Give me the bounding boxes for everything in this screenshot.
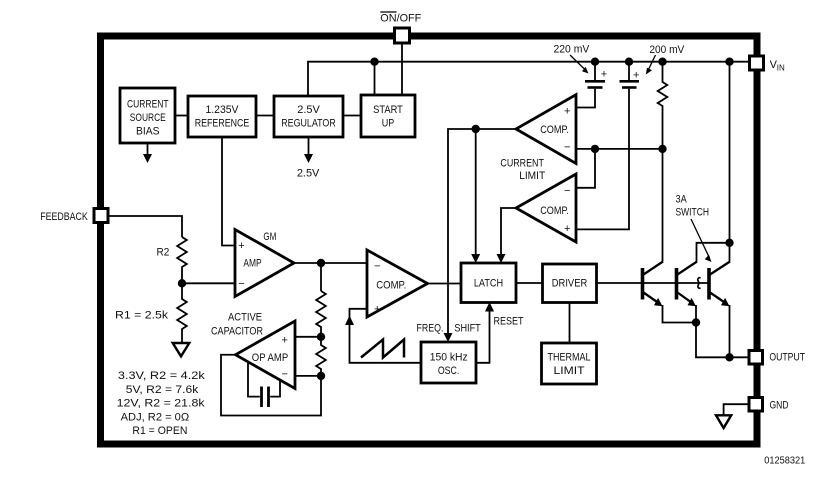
wire REG to START UP <box>343 115 361 117</box>
ground R1 <box>173 343 190 356</box>
box U1 CURRENT SOURCE BIAS <box>120 88 175 143</box>
svg-text:ON/OFF: ON/OFF <box>380 12 421 24</box>
svg-text:5V, R2 = 7.6k: 5V, R2 = 7.6k <box>126 384 199 396</box>
svg-text:+: + <box>601 68 607 80</box>
wire VIN top rail <box>308 62 750 96</box>
svg-text:SWITCH: SWITCH <box>676 207 710 219</box>
resistor compensation R lower <box>316 337 326 376</box>
resistor R1 <box>177 283 187 343</box>
arrow into latch right <box>497 254 506 263</box>
svg-text:2.5V: 2.5V <box>297 104 320 116</box>
comparator PWM COMP <box>367 250 428 317</box>
label 3A SWITCH <box>676 194 710 219</box>
node GM output junction <box>318 260 325 267</box>
svg-text:−: − <box>238 278 244 290</box>
wire lower comp output to latch <box>501 208 516 258</box>
op-amp GM AMP <box>235 230 294 297</box>
squiggle base wire <box>698 278 701 289</box>
svg-text:LIMIT: LIMIT <box>554 365 585 377</box>
svg-text:SOURCE: SOURCE <box>130 112 166 124</box>
svg-text:COMP.: COMP. <box>540 205 569 217</box>
op-amp OP AMP <box>236 321 296 389</box>
pin VIN <box>750 56 764 70</box>
box U7 DRIVER <box>543 264 597 303</box>
wire op-amp output loop <box>221 355 321 416</box>
svg-text:R2: R2 <box>157 247 170 259</box>
svg-text:SHIFT: SHIFT <box>454 323 481 335</box>
wire driver to thermal limit <box>569 303 571 344</box>
svg-text:R1 = OPEN: R1 = OPEN <box>132 425 187 437</box>
label GM AMP <box>238 231 276 290</box>
label THERMAL LIMIT <box>548 351 591 377</box>
box U3 2.5V REGULATOR <box>274 96 343 137</box>
label CURRENT LIMIT <box>500 158 545 182</box>
wire base drive <box>597 282 708 284</box>
sawtooth waveform <box>361 340 404 358</box>
arrow 3A switch annotation <box>691 219 712 262</box>
wire GND pin <box>724 404 749 415</box>
svg-text:+: + <box>564 105 570 117</box>
svg-text:200 mV: 200 mV <box>649 44 684 56</box>
svg-text:CAPACITOR: CAPACITOR <box>211 326 263 338</box>
wire compensation chain top <box>320 263 322 291</box>
node rail 200mV <box>626 58 633 65</box>
box U6 LATCH <box>461 263 516 303</box>
wire branch to latch <box>475 129 477 258</box>
arrow into latch left <box>471 254 480 263</box>
resistor R2 <box>177 237 187 283</box>
wire current limit sense <box>576 148 663 150</box>
transistor Q1 <box>643 262 664 307</box>
wire Q2 emitter to output <box>696 305 749 357</box>
svg-text:COMP.: COMP. <box>540 124 569 136</box>
label 2.5V REGULATOR <box>281 104 336 130</box>
svg-text:START: START <box>373 104 403 116</box>
box U2 1.235V REFERENCE <box>188 96 256 137</box>
svg-text:OUTPUT: OUTPUT <box>769 351 805 363</box>
svg-text:GND: GND <box>770 399 789 411</box>
pin OUTPUT <box>749 351 763 365</box>
wire CSB to REF <box>175 115 188 117</box>
comparator current limit lower <box>516 174 576 242</box>
svg-text:REGULATOR: REGULATOR <box>281 118 336 130</box>
svg-text:−: − <box>374 260 380 272</box>
arrow comp + input <box>345 316 354 326</box>
label PWM COMP <box>374 260 406 315</box>
svg-text:−: − <box>564 185 570 197</box>
wire sense to T1 collector <box>662 149 664 262</box>
node rail-startup junction <box>371 58 378 65</box>
wire Q3 collector to rail <box>729 62 731 262</box>
node output junction <box>726 354 733 361</box>
svg-text:ACTIVE: ACTIVE <box>228 311 262 323</box>
wire GM output to comparator <box>294 262 367 264</box>
battery 220mV offset <box>576 62 605 108</box>
label ON/OFF <box>380 12 421 24</box>
wire rail to START UP <box>374 62 376 95</box>
resistor current sense <box>658 62 668 149</box>
arrow REG 2.5V output <box>304 137 313 163</box>
svg-text:CURRENT: CURRENT <box>500 158 544 170</box>
label resistor values <box>117 370 206 437</box>
svg-text:OP AMP: OP AMP <box>252 352 288 364</box>
svg-text:GM: GM <box>263 231 276 243</box>
node Q2-Q3 collectors <box>726 240 733 247</box>
wire comp + input from oscillator <box>350 309 422 363</box>
node sense resistor bottom <box>659 146 666 153</box>
svg-text:IN: IN <box>777 64 785 73</box>
wire op-amp - input <box>295 375 321 377</box>
pin GND <box>749 398 763 412</box>
pin ON/OFF <box>395 28 410 43</box>
wire op-amp + input <box>295 336 321 338</box>
resistor compensation R upper <box>316 291 326 337</box>
svg-text:REFERENCE: REFERENCE <box>195 118 250 130</box>
node rail switch <box>726 58 733 65</box>
svg-text:R1 = 2.5k: R1 = 2.5k <box>115 309 169 321</box>
svg-text:ADJ, R2 = 0Ω: ADJ, R2 = 0Ω <box>121 411 190 423</box>
svg-text:CURRENT: CURRENT <box>127 98 169 110</box>
svg-text:RESET: RESET <box>494 315 524 327</box>
wire oscillator reset to latch <box>476 303 490 363</box>
svg-text:LATCH: LATCH <box>474 278 503 290</box>
transistor Q3 3A SWITCH <box>709 262 730 307</box>
IC boundary <box>101 36 758 444</box>
node feedback divider junction <box>179 280 186 287</box>
capacitor active feedback <box>248 363 280 408</box>
svg-text:AMP: AMP <box>243 258 261 270</box>
label CURRENT SOURCE BIAS <box>127 98 169 137</box>
svg-text:+: + <box>564 223 570 235</box>
arrow 220mV annotation <box>570 55 589 74</box>
svg-text:−: − <box>564 141 570 153</box>
comparator current limit upper <box>516 95 576 164</box>
box U4 START UP <box>361 95 415 137</box>
wire comp output to latch <box>428 283 462 285</box>
svg-text:LIMIT: LIMIT <box>519 170 545 182</box>
label 1.235V REFERENCE <box>195 104 250 130</box>
label 150 kHz OSC <box>430 352 468 377</box>
svg-text:+: + <box>238 240 244 252</box>
svg-text:BIAS: BIAS <box>136 125 160 137</box>
wire ON/OFF to START UP <box>401 43 403 95</box>
label VIN <box>770 59 785 73</box>
wire Q2 collector <box>697 243 730 262</box>
svg-text:01258321: 01258321 <box>764 455 805 466</box>
svg-text:3.3V, R2 = 4.2k: 3.3V, R2 = 4.2k <box>118 370 205 382</box>
svg-text:THERMAL: THERMAL <box>548 351 591 363</box>
label ACTIVE CAPACITOR <box>211 311 263 337</box>
node op-amp + tap <box>318 334 325 341</box>
svg-text:+: + <box>282 335 288 347</box>
wire latch to driver <box>516 282 543 284</box>
node sense branch <box>592 146 599 153</box>
transistor Q2 <box>677 262 698 307</box>
svg-text:COMP.: COMP. <box>376 279 406 291</box>
node rail 220mV <box>592 58 599 65</box>
svg-text:FREQ.: FREQ. <box>417 323 444 335</box>
pin FEEDBACK <box>94 209 108 223</box>
svg-text:12V, R2 = 21.8k: 12V, R2 = 21.8k <box>117 398 206 410</box>
box U8 THERMAL LIMIT <box>542 343 597 384</box>
node op-amp - tap <box>318 373 325 380</box>
arrow CSB bias output <box>143 143 152 163</box>
node rail sense resistor <box>659 58 666 65</box>
svg-text:−: − <box>282 369 288 381</box>
wire divider to GM amp - input <box>182 282 235 284</box>
wire Q3 emitter <box>729 305 731 357</box>
svg-text:3A: 3A <box>676 194 688 206</box>
battery 200mV offset <box>576 62 639 230</box>
box U5 150 kHz OSC <box>421 342 476 383</box>
wire REF to REG <box>256 115 274 117</box>
svg-text:220 mV: 220 mV <box>554 43 590 55</box>
svg-text:2.5V: 2.5V <box>297 167 320 179</box>
label START UP <box>373 104 403 130</box>
svg-text:UP: UP <box>382 118 395 130</box>
svg-text:1.235V: 1.235V <box>206 104 240 116</box>
wire sense to lower comp - input <box>576 149 595 188</box>
label 220 mV <box>554 43 608 80</box>
label 200 mV <box>633 44 685 81</box>
ground GND pin <box>716 415 731 428</box>
wire Q1 emitter <box>663 305 697 323</box>
svg-text:OSC.: OSC. <box>438 365 460 377</box>
svg-text:DRIVER: DRIVER <box>552 278 588 290</box>
wire REF to GM amp + input <box>222 137 235 246</box>
wire upper comp output to latch and osc <box>448 129 516 337</box>
svg-text:+: + <box>633 69 639 81</box>
label FREQ SHIFT <box>417 323 481 335</box>
label upper comparator <box>540 105 570 153</box>
svg-text:+: + <box>374 303 380 315</box>
arrow reset into latch <box>485 302 494 312</box>
wire FEEDBACK to R2 <box>108 216 182 237</box>
node upper comp output branch <box>472 126 479 133</box>
arrow freq shift into osc <box>444 333 453 342</box>
arrow 200mV annotation <box>646 55 656 75</box>
label OP AMP <box>252 335 288 381</box>
svg-text:FEEDBACK: FEEDBACK <box>40 211 88 223</box>
svg-text:150 kHz: 150 kHz <box>430 352 468 364</box>
label lower comparator <box>540 185 570 235</box>
node Q1-Q2 emitters <box>693 319 700 326</box>
